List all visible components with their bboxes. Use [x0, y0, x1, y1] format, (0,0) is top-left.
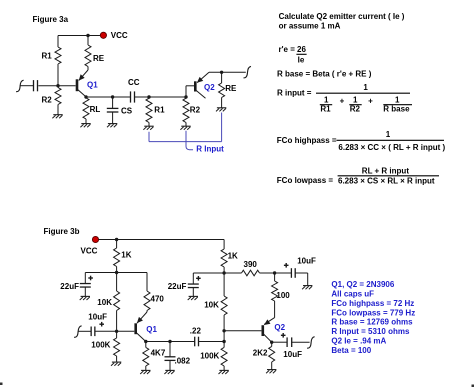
R2 label stage2: [190, 106, 201, 115]
wire VCC rail fig3a: [58, 35, 101, 37]
svg-text:RE: RE: [225, 84, 237, 93]
resistor 100K stage1: [114, 331, 120, 362]
svg-text:or assume 1 mA: or assume 1 mA: [279, 21, 341, 30]
1K label stage2: [228, 251, 238, 260]
svg-text:2K2: 2K2: [253, 349, 268, 358]
ground 100K stage1: [111, 362, 121, 366]
formula R input big fraction: [277, 83, 412, 114]
plus sign 10uF bypass: [284, 263, 289, 268]
svg-text:R Input: R Input: [196, 144, 224, 153]
node .082 junction: [168, 340, 171, 343]
wire node B to 390: [224, 272, 241, 274]
plus sign 10uF output: [281, 333, 286, 338]
svg-text:R input =: R input =: [277, 88, 312, 97]
svg-text:FCo highpass =: FCo highpass =: [277, 136, 337, 145]
100K label stage1: [91, 341, 110, 350]
svg-text:RE: RE: [93, 54, 105, 63]
svg-text:R1: R1: [154, 106, 165, 115]
svg-text:R2: R2: [42, 96, 53, 105]
node Q1 collector junction: [144, 340, 147, 343]
wire input to cap fig3b: [78, 330, 91, 332]
capacitor .082: [165, 342, 176, 371]
formula r'e fraction: [279, 45, 307, 65]
CC label fig3a: [128, 78, 140, 87]
svg-text:10uF: 10uF: [88, 313, 107, 322]
node CS junction: [111, 95, 114, 98]
Figure 3b title: [44, 227, 80, 236]
svg-text:R Input = 5310 ohms: R Input = 5310 ohms: [331, 327, 410, 336]
svg-text:10uF: 10uF: [297, 257, 316, 266]
corner artifact bottom-left: [0, 383, 3, 386]
svg-text:Q2: Q2: [204, 83, 215, 92]
Q2 label fig3b: [274, 323, 285, 332]
capacitor .22: [195, 337, 199, 347]
svg-text:FCo highpass = 72 Hz: FCo highpass = 72 Hz: [331, 299, 414, 308]
corner artifact bottom-right: [472, 385, 474, 387]
svg-text:R base = 12769 ohms: R base = 12769 ohms: [331, 318, 413, 327]
wire node B to 22uF stage2: [193, 273, 224, 284]
svg-text:R1: R1: [320, 105, 331, 114]
wire base riser Q2 fig3a: [186, 86, 194, 97]
470 label: [151, 295, 165, 304]
node RE tap on rail: [86, 34, 89, 37]
node 390 output junction: [273, 271, 276, 274]
ground R2 fig3a: [52, 115, 62, 119]
node RE stage2 junction: [220, 71, 223, 74]
node 1K stage1 tap: [115, 238, 118, 241]
formula R base: [277, 69, 372, 78]
svg-text:Q1: Q1: [146, 325, 157, 334]
capacitor 22uF stage2: [188, 284, 199, 296]
svg-text:All caps uF: All caps uF: [331, 289, 374, 298]
ground R2 stage2: [180, 126, 190, 130]
resistor 10K stage2: [221, 273, 227, 331]
capacitor 10uF input fig3b: [91, 327, 95, 337]
svg-text:100K: 100K: [91, 341, 110, 350]
resistor 100K stage2: [221, 342, 227, 371]
capacitor input coupling fig3a: [34, 80, 38, 91]
ground R1 stage2: [143, 126, 153, 130]
svg-text:Q2 Ie = .94 mA: Q2 Ie = .94 mA: [331, 337, 386, 346]
10K label stage2: [204, 300, 219, 309]
svg-text:+: +: [368, 96, 373, 105]
resistor 1K stage1: [114, 240, 120, 273]
svg-text:R1: R1: [42, 52, 53, 61]
svg-text:FCo lowpass =: FCo lowpass =: [277, 176, 334, 185]
ground RL fig3a: [80, 124, 90, 128]
svg-text:RL: RL: [90, 105, 101, 114]
ground 4K7: [140, 370, 150, 374]
resistor 470 emitter stage1: [137, 273, 150, 324]
wire .22 to node: [199, 341, 225, 343]
transistor Q1 fig3a: [77, 70, 88, 97]
Q1 label fig3b: [146, 325, 157, 334]
svg-text:1: 1: [324, 96, 329, 105]
RL label fig3a: [90, 105, 101, 114]
100K label stage2: [200, 352, 219, 361]
svg-text:VCC: VCC: [81, 247, 98, 256]
plus sign 22uF stage2: [196, 276, 201, 281]
wire CC to stage2 fig3a: [135, 96, 186, 98]
R2 label fig3a: [42, 96, 53, 105]
node B junction fig3b: [222, 271, 225, 274]
resistor 390: [242, 270, 260, 276]
svg-text:1: 1: [363, 83, 368, 92]
svg-text:R2: R2: [190, 106, 201, 115]
svg-text:6.283 × CC × ( RL + R input ): 6.283 × CC × ( RL + R input ): [338, 143, 445, 152]
node .22 output junction: [222, 340, 225, 343]
wire collector to 10uF output: [272, 341, 287, 343]
resistor R1 fig3a: [55, 36, 61, 86]
node Q2 collector junction: [270, 341, 273, 344]
wire input to base fig3a: [20, 85, 76, 87]
wire node A to 22uF: [85, 273, 116, 284]
resistor 1K stage2: [221, 249, 227, 273]
ground CS fig3a: [107, 124, 117, 128]
ground 22uF stage1: [80, 296, 90, 300]
wire cap to base Q1 fig3b: [95, 330, 134, 332]
svg-text:CC: CC: [128, 78, 140, 87]
10K label stage1: [97, 298, 112, 307]
svg-text:RL + R input: RL + R input: [362, 167, 410, 176]
22uF label stage2: [168, 282, 187, 291]
wire junction to 10uF bypass: [275, 272, 292, 274]
svg-text:26: 26: [297, 45, 306, 54]
formula line calculate: [279, 12, 405, 21]
wire node A to 470: [117, 272, 147, 274]
R Input label fig3a: [196, 144, 224, 153]
transistor Q2 fig3a: [195, 72, 209, 98]
transistor Q2 fig3b: [263, 319, 272, 342]
node RL junction: [84, 95, 87, 98]
svg-text:r'e =: r'e =: [279, 45, 296, 54]
svg-text:100: 100: [276, 291, 290, 300]
resistor 100 emitter stage2: [264, 273, 278, 324]
svg-text:1K: 1K: [228, 251, 238, 260]
CS label fig3a: [121, 107, 133, 116]
wire R input bracket blue: [149, 113, 222, 150]
22uF label stage1: [60, 282, 79, 291]
ground .082: [164, 370, 174, 374]
resistor 4K7: [143, 342, 149, 371]
resistor R1 fig3a stage2: [146, 98, 152, 126]
RE label fig3a stage1: [93, 54, 105, 63]
plus sign 10uF input: [99, 322, 104, 327]
capacitor CS fig3a: [107, 97, 119, 123]
plus sign 22uF stage1: [88, 276, 93, 281]
resistor RE fig3a stage1: [85, 36, 91, 71]
wire emitter rail fig3a stage2: [209, 71, 246, 73]
svg-text:1: 1: [353, 96, 358, 105]
svg-text:VCC: VCC: [111, 31, 128, 40]
wire base Q2 fig3b: [224, 330, 261, 332]
1K label stage1: [121, 250, 131, 259]
svg-text:390: 390: [244, 260, 258, 269]
node R2 stage2 junction: [184, 95, 187, 98]
svg-text:Figure 3a: Figure 3a: [33, 15, 69, 24]
VCC terminal dot fig3b: [92, 236, 98, 242]
svg-text:.22: .22: [190, 327, 202, 336]
svg-text:4K7: 4K7: [151, 348, 166, 357]
break symbol fig3a top right: [244, 66, 252, 77]
wire node to 100K stage2: [223, 331, 225, 342]
node R1 stage2 junction: [147, 95, 150, 98]
svg-text:Q2: Q2: [274, 323, 285, 332]
node base Q2 junction fig3b: [222, 329, 225, 332]
Q2 label fig3a: [204, 83, 215, 92]
Q1 label fig3a: [87, 80, 98, 89]
svg-text:Q1: Q1: [87, 80, 98, 89]
svg-text:Q1, Q2 = 2N3906: Q1, Q2 = 2N3906: [331, 280, 394, 289]
svg-text:Calculate Q2 emitter current (: Calculate Q2 emitter current ( Ie ): [279, 12, 405, 21]
.082 label: [175, 356, 191, 365]
ground 22uF stage2: [188, 296, 198, 300]
100 label: [276, 291, 290, 300]
10uF label bypass: [297, 257, 316, 266]
10uF label output: [283, 350, 302, 359]
node A junction fig3b: [115, 271, 118, 274]
source break symbol fig3a input: [16, 80, 24, 91]
svg-text:470: 470: [151, 295, 165, 304]
VCC label fig3a: [111, 31, 128, 40]
svg-text:R base = Beta ( r'e + RE ): R base = Beta ( r'e + RE ): [277, 69, 372, 78]
resistor R2 fig3a stage2: [183, 98, 189, 126]
2K2 label: [253, 349, 268, 358]
svg-text:FCo lowpass = 779 Hz: FCo lowpass = 779 Hz: [331, 308, 415, 317]
svg-text:Beta = 100: Beta = 100: [331, 346, 371, 355]
svg-text:R2: R2: [350, 105, 361, 114]
R1 label stage2: [154, 106, 165, 115]
390 label: [244, 260, 258, 269]
node base Q1 junction fig3b: [115, 330, 118, 333]
10uF label input: [88, 313, 107, 322]
svg-text:Ie: Ie: [298, 56, 305, 65]
Figure 3a title: [33, 15, 69, 24]
source break symbol fig3b input: [74, 326, 82, 337]
svg-text:1: 1: [395, 96, 400, 105]
wire Q1 collector bus fig3b: [146, 341, 195, 343]
svg-text:R base: R base: [383, 105, 410, 114]
capacitor 10uF output: [287, 337, 310, 347]
.22 label: [190, 327, 202, 336]
VCC label fig3b: [81, 247, 98, 256]
resistor 2K2: [269, 342, 275, 369]
svg-text:6.283 × CS × RL × R input: 6.283 × CS × RL × R input: [338, 176, 435, 185]
resistor RE fig3a stage2: [219, 72, 225, 107]
wire VCC rail fig3b: [99, 239, 225, 241]
capacitor 10uF bypass: [291, 268, 307, 285]
VCC terminal dot: [100, 32, 106, 38]
formula line assume: [279, 21, 341, 30]
svg-text:22uF: 22uF: [168, 282, 187, 291]
svg-text:1K: 1K: [121, 250, 131, 259]
capacitor 22uF stage1: [80, 284, 91, 297]
ground 2K2: [266, 370, 276, 374]
formula FCo lowpass: [277, 167, 439, 186]
svg-text:100K: 100K: [200, 352, 219, 361]
RE label stage2: [225, 84, 237, 93]
ground 100K stage2: [219, 370, 229, 374]
svg-text:+: +: [340, 96, 345, 105]
svg-text:10uF: 10uF: [283, 350, 302, 359]
formula FCo highpass: [277, 130, 446, 152]
4K7 label: [151, 348, 166, 357]
ground 10uF bypass: [302, 286, 312, 290]
svg-text:.082: .082: [175, 356, 191, 365]
svg-text:CS: CS: [121, 107, 133, 116]
svg-text:1: 1: [386, 130, 391, 139]
resistor RL fig3a: [83, 98, 89, 124]
break symbol fig3b output: [307, 337, 315, 348]
resistor 10K stage1: [114, 273, 120, 332]
wire rail corner to 1K stage2: [223, 240, 225, 250]
ground RE stage2: [216, 108, 226, 112]
notes blue text block: [331, 280, 415, 355]
svg-text:10K: 10K: [97, 298, 112, 307]
wire collector bus fig3a: [86, 96, 131, 98]
wire 390 to junction: [260, 272, 275, 274]
svg-text:10K: 10K: [204, 300, 219, 309]
svg-text:22uF: 22uF: [60, 282, 79, 291]
resistor R2 fig3a: [55, 86, 61, 115]
capacitor CC fig3a: [131, 91, 135, 102]
transistor Q1 fig3b: [136, 317, 146, 342]
R1 label fig3a: [42, 52, 53, 61]
node base divider junction fig3a: [56, 84, 59, 87]
svg-text:Figure 3b: Figure 3b: [44, 227, 80, 236]
